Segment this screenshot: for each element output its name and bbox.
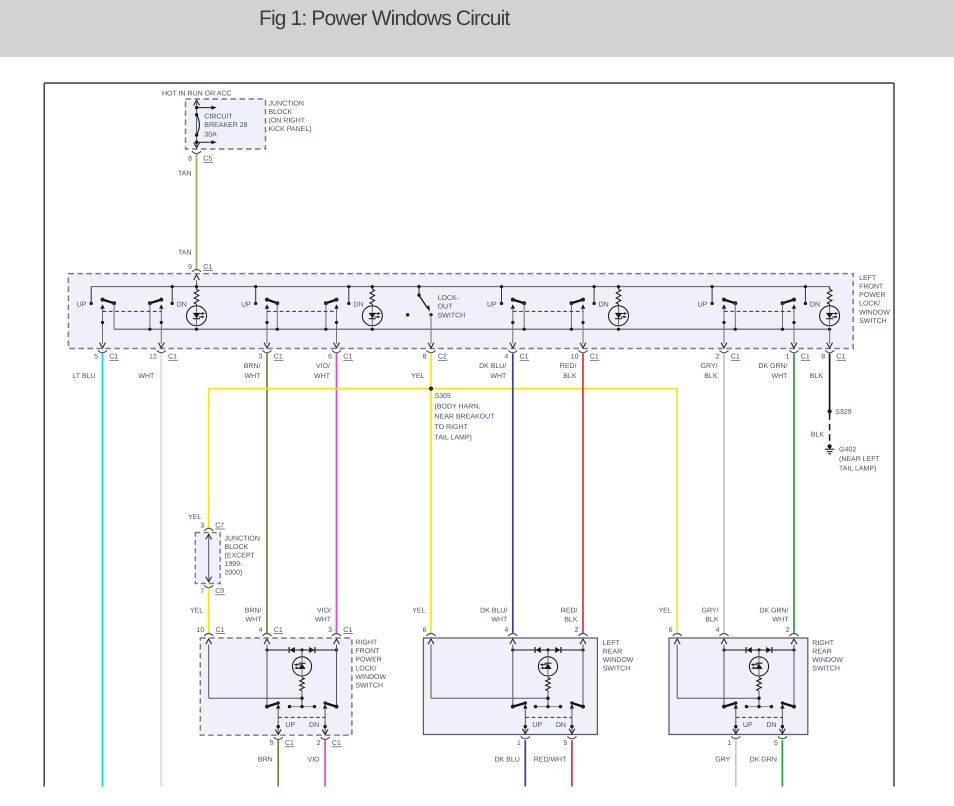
wire colour labels below master switch — [72, 362, 823, 380]
splice S329 — [828, 409, 832, 413]
left front power lock/window switch panel box — [68, 274, 853, 349]
svg-text:FRONT: FRONT — [859, 284, 884, 291]
svg-text:BLK: BLK — [810, 373, 824, 380]
svg-text:UP: UP — [77, 302, 87, 309]
svg-text:UP: UP — [743, 722, 753, 729]
svg-text:HOT IN RUN OR ACC: HOT IN RUN OR ACC — [162, 91, 232, 98]
connector C1 pin 10 master switch bottom — [571, 343, 600, 361]
svg-text:1999-: 1999- — [225, 561, 244, 568]
svg-text:BLK: BLK — [563, 373, 577, 380]
left rear switch illumination feed lead — [431, 645, 548, 699]
svg-text:C1: C1 — [274, 354, 283, 361]
svg-text:C1: C1 — [203, 264, 212, 271]
wire BRN/WHT to right front switch — [266, 354, 268, 633]
svg-text:C1: C1 — [168, 354, 177, 361]
svg-text:BLOCK: BLOCK — [225, 544, 249, 551]
wire YEL branch left to junction block — [209, 389, 431, 528]
connector C5 pin 8 — [188, 151, 213, 163]
wire DK GRN bottom lead — [781, 740, 783, 786]
wire DK BLU/WHT to left rear switch — [512, 354, 514, 633]
right rear window switch box — [669, 638, 808, 735]
left rear switch label — [603, 640, 634, 673]
svg-text:POWER: POWER — [859, 292, 885, 299]
illumination lamp resistor+LED unit 1 — [187, 285, 207, 331]
svg-text:POWER: POWER — [355, 657, 381, 664]
lock-out switch open contact dot — [406, 313, 409, 316]
left rear switch diode pair — [511, 647, 584, 653]
title banner — [0, 0, 954, 57]
svg-text:WHT: WHT — [491, 617, 508, 624]
svg-text:YEL: YEL — [412, 607, 425, 614]
right front switch illumination feed lead — [209, 645, 302, 699]
svg-text:10: 10 — [571, 354, 579, 361]
svg-text:C1: C1 — [590, 354, 599, 361]
svg-text:SWITCH: SWITCH — [438, 312, 466, 319]
svg-text:5: 5 — [774, 740, 778, 747]
wire RED/WHT bottom lead — [571, 740, 573, 786]
right front switch illumination LED and resistor — [292, 650, 311, 707]
wire YEL branch right to right rear switch — [431, 389, 677, 633]
panel label LEFT FRONT POWER LOCK/WINDOW SWITCH — [859, 275, 890, 325]
svg-text:9: 9 — [188, 264, 192, 271]
svg-text:7: 7 — [200, 588, 204, 595]
wire LT BLU — [102, 354, 104, 787]
right rear switch label — [812, 640, 843, 673]
svg-text:S329: S329 — [835, 409, 851, 416]
svg-text:DK BLU/: DK BLU/ — [479, 362, 506, 370]
svg-text:UP: UP — [487, 302, 497, 309]
svg-text:REAR: REAR — [812, 648, 831, 655]
svg-text:LOCK/: LOCK/ — [355, 664, 376, 672]
right front switch diode pair — [265, 647, 338, 653]
svg-text:LEFT: LEFT — [603, 640, 621, 647]
svg-text:YEL: YEL — [190, 607, 203, 614]
svg-text:WHT: WHT — [246, 617, 263, 624]
svg-text:DN: DN — [353, 302, 363, 309]
right rear switch bottom connectors — [727, 729, 787, 748]
svg-text:BRN/: BRN/ — [244, 362, 261, 370]
wire VIO bottom lead — [324, 740, 326, 786]
svg-text:WHT: WHT — [245, 373, 262, 380]
right front switch label — [355, 640, 386, 690]
connector C2 pin 8 master switch bottom — [423, 343, 448, 361]
svg-text:WHT: WHT — [315, 617, 332, 624]
svg-text:(ON RIGHT: (ON RIGHT — [269, 116, 306, 124]
svg-text:BREAKER 28: BREAKER 28 — [204, 122, 247, 129]
svg-text:(NEAR LEFT: (NEAR LEFT — [839, 455, 881, 463]
svg-text:(EXCEPT: (EXCEPT — [225, 551, 256, 559]
svg-text:8: 8 — [821, 354, 825, 361]
svg-text:DN: DN — [599, 302, 609, 309]
right front power lock/window switch box — [200, 638, 352, 735]
right front switch rocker switch contacts — [265, 645, 338, 735]
svg-text:1: 1 — [517, 740, 521, 747]
svg-text:JUNCTION: JUNCTION — [269, 100, 304, 107]
svg-text:YEL: YEL — [658, 607, 671, 614]
svg-text:RED/: RED/ — [560, 362, 577, 370]
right rear switch illumination LED and resistor — [749, 650, 768, 707]
svg-text:8: 8 — [423, 354, 427, 361]
svg-text:BLOCK: BLOCK — [269, 109, 293, 116]
left rear switch bottom connectors — [517, 729, 577, 748]
svg-text:BRN/: BRN/ — [245, 606, 262, 614]
svg-text:TAN: TAN — [178, 250, 191, 257]
BLK exit lead from ground bus — [829, 329, 831, 344]
right front switch top connectors — [196, 627, 352, 644]
svg-text:6: 6 — [423, 627, 427, 634]
svg-text:9: 9 — [270, 740, 274, 747]
svg-text:DN: DN — [556, 722, 566, 729]
connector C1 pin 4 master switch bottom — [504, 343, 529, 361]
svg-text:GRY/: GRY/ — [702, 606, 719, 614]
left rear window switch box — [423, 638, 597, 735]
svg-text:YEL: YEL — [411, 373, 424, 380]
svg-text:OUT: OUT — [438, 304, 454, 311]
svg-text:RIGHT: RIGHT — [355, 640, 378, 647]
wire DK GRN/WHT to right rear switch — [793, 354, 795, 633]
svg-text:6: 6 — [669, 627, 673, 634]
left rear switch top connectors — [423, 627, 588, 644]
svg-text:8: 8 — [188, 156, 192, 163]
svg-text:RIGHT: RIGHT — [812, 640, 835, 647]
svg-text:LOCK/: LOCK/ — [859, 300, 880, 308]
svg-text:4: 4 — [716, 627, 720, 634]
svg-text:SWITCH: SWITCH — [859, 318, 887, 325]
svg-text:BLK: BLK — [705, 617, 719, 624]
svg-text:3: 3 — [259, 354, 263, 361]
svg-text:5: 5 — [94, 354, 98, 361]
svg-text:LT BLU: LT BLU — [72, 373, 95, 380]
svg-text:5: 5 — [563, 740, 567, 747]
master window switch unit 4 — [698, 285, 820, 344]
svg-text:TAIL LAMP): TAIL LAMP) — [839, 465, 876, 473]
connector C1 pin 3 master switch bottom — [259, 343, 284, 361]
svg-text:RED/: RED/ — [561, 606, 578, 614]
svg-text:C1: C1 — [343, 627, 352, 634]
svg-text:C1: C1 — [109, 354, 118, 361]
wire BLK to splice S329 — [829, 354, 831, 412]
svg-text:S305: S305 — [435, 393, 451, 400]
junction block (on right kick panel) dashed box — [186, 99, 266, 149]
svg-text:WHT: WHT — [490, 373, 507, 380]
connector C1 pin 6 master switch bottom — [328, 343, 353, 361]
svg-text:UP: UP — [698, 302, 708, 309]
connector C9 pin 7 — [200, 585, 225, 595]
svg-text:DN: DN — [309, 722, 319, 729]
connector C7 pin 3 — [200, 522, 225, 530]
junction block label — [269, 100, 312, 132]
svg-text:BLK: BLK — [811, 432, 825, 439]
svg-text:SWITCH: SWITCH — [355, 682, 383, 689]
svg-text:12: 12 — [149, 354, 157, 361]
svg-text:4: 4 — [259, 627, 263, 634]
svg-text:6: 6 — [328, 354, 332, 361]
svg-text:C2: C2 — [438, 354, 447, 361]
wire BLK dashed to ground — [829, 414, 831, 445]
connector C1 pin 8 master switch bottom — [821, 343, 846, 361]
svg-text:C1: C1 — [274, 627, 283, 634]
svg-text:2000): 2000) — [225, 568, 243, 576]
svg-text:4: 4 — [504, 354, 508, 361]
svg-text:UP: UP — [285, 722, 295, 729]
wire YEL from lock-out switch — [430, 354, 432, 389]
wire DK BLU bottom lead — [524, 740, 526, 786]
svg-text:GRY: GRY — [715, 756, 730, 763]
wire BRN bottom lead — [277, 740, 279, 786]
svg-text:TAN: TAN — [178, 170, 191, 177]
left rear switch rocker switch contacts — [511, 645, 585, 735]
connector C1 pin 5 master switch bottom — [94, 343, 119, 361]
svg-text:WINDOW: WINDOW — [859, 309, 890, 316]
svg-text:YEL: YEL — [188, 514, 201, 521]
svg-text:UP: UP — [532, 722, 542, 729]
svg-text:G402: G402 — [839, 447, 856, 454]
svg-text:VIO/: VIO/ — [316, 362, 330, 370]
svg-text:BLK: BLK — [704, 373, 718, 380]
svg-text:SWITCH: SWITCH — [812, 666, 840, 673]
connector C1 pin 9 into master switch — [188, 264, 213, 272]
figure frame — [44, 83, 894, 786]
svg-text:WINDOW: WINDOW — [812, 657, 843, 664]
svg-text:BLK: BLK — [564, 617, 578, 624]
svg-text:WHT: WHT — [314, 373, 331, 380]
svg-text:JUNCTION: JUNCTION — [225, 535, 260, 542]
svg-text:DN: DN — [766, 722, 776, 729]
svg-text:RED/WHT: RED/WHT — [534, 755, 567, 763]
circuit breaker 28 30A — [194, 100, 248, 148]
label LOCK-OUT SWITCH — [438, 295, 466, 320]
svg-text:WINDOW: WINDOW — [355, 674, 386, 681]
svg-text:WINDOW: WINDOW — [603, 657, 634, 664]
svg-text:30A: 30A — [204, 131, 217, 138]
svg-text:DN: DN — [810, 302, 820, 309]
top supply bus — [91, 286, 829, 288]
svg-text:3: 3 — [200, 522, 204, 529]
svg-text:DK BLU/: DK BLU/ — [480, 606, 507, 614]
wire RED/BLK to left rear switch — [582, 354, 584, 633]
svg-text:C9: C9 — [215, 588, 224, 595]
svg-text:CIRCUIT: CIRCUIT — [204, 114, 233, 121]
svg-text:2: 2 — [716, 354, 720, 361]
svg-text:(BODY HARN,: (BODY HARN, — [435, 402, 481, 410]
connector C1 pin 2 master switch bottom — [716, 343, 741, 361]
pin 9 entry lead — [194, 275, 200, 287]
svg-text:DK GRN/: DK GRN/ — [758, 362, 787, 370]
svg-text:C1: C1 — [343, 354, 352, 361]
illumination lamp resistor+LED unit 3 — [609, 285, 629, 331]
svg-text:REAR: REAR — [603, 648, 622, 655]
svg-text:WHT: WHT — [138, 373, 155, 380]
svg-text:C1: C1 — [216, 627, 225, 634]
svg-text:BRN: BRN — [258, 756, 273, 763]
label S305 (body harn, near breakout to right tail lamp) — [435, 393, 496, 441]
svg-text:VIO: VIO — [308, 756, 321, 763]
svg-text:VIO/: VIO/ — [317, 606, 331, 614]
connector C1 pin 12 master switch bottom — [149, 343, 178, 361]
svg-text:DN: DN — [177, 302, 187, 309]
svg-text:TO RIGHT: TO RIGHT — [435, 424, 469, 431]
wire YEL down to left rear switch — [430, 389, 432, 633]
label G402 (near left tail lamp) — [839, 447, 881, 473]
right rear switch illumination feed lead — [677, 645, 759, 699]
svg-text:C1: C1 — [285, 740, 294, 747]
svg-text:4: 4 — [504, 627, 508, 634]
connector C1 pin 1 master switch bottom — [786, 343, 811, 361]
wire colour labels above lower switches — [190, 606, 789, 623]
wire WHT — [160, 354, 162, 787]
wire GRY/BLK to right rear switch — [723, 354, 725, 633]
wire VIO/WHT to right front switch — [336, 354, 338, 633]
wire GRY bottom lead — [735, 740, 737, 786]
illumination lamp resistor+LED unit 4 — [820, 287, 840, 331]
master window switch unit 1 — [77, 285, 187, 344]
svg-text:LOCK-: LOCK- — [438, 295, 460, 302]
svg-text:C5: C5 — [203, 156, 212, 163]
svg-text:DK GRN/: DK GRN/ — [759, 606, 788, 614]
svg-text:LEFT: LEFT — [859, 275, 877, 282]
right rear switch diode pair — [722, 647, 795, 653]
svg-text:SWITCH: SWITCH — [603, 666, 631, 673]
right front switch bottom connectors — [270, 729, 342, 747]
svg-text:KICK PANEL): KICK PANEL) — [269, 125, 312, 133]
svg-text:GRY/: GRY/ — [701, 362, 718, 370]
svg-text:C1: C1 — [836, 354, 845, 361]
svg-text:Fig 1: Power Windows Circuit: Fig 1: Power Windows Circuit — [259, 7, 510, 30]
svg-text:3: 3 — [328, 627, 332, 634]
splice S305 — [429, 387, 433, 391]
svg-text:2: 2 — [317, 740, 321, 747]
svg-text:DK BLU: DK BLU — [495, 756, 520, 763]
bottom ground bus — [114, 328, 830, 330]
svg-text:TAIL LAMP): TAIL LAMP) — [435, 433, 472, 441]
master window switch unit 2 — [241, 285, 363, 344]
master window switch unit 3 — [487, 285, 609, 344]
svg-text:C7: C7 — [215, 522, 224, 529]
label JUNCTION BLOCK (EXCEPT 1999-2000) — [225, 535, 260, 576]
left rear switch illumination LED and resistor — [538, 650, 557, 707]
svg-text:DK GRN: DK GRN — [750, 756, 777, 763]
svg-text:C1: C1 — [801, 354, 810, 361]
illumination lamp resistor+LED unit 2 — [362, 285, 382, 331]
svg-text:FRONT: FRONT — [355, 648, 380, 655]
svg-text:WHT: WHT — [772, 373, 789, 380]
svg-text:2: 2 — [786, 627, 790, 634]
svg-text:C1: C1 — [731, 354, 740, 361]
svg-text:1: 1 — [727, 740, 731, 747]
svg-text:10: 10 — [196, 627, 204, 634]
svg-text:1: 1 — [786, 354, 790, 361]
junction block internal lead — [206, 534, 212, 582]
svg-text:WHT: WHT — [773, 617, 790, 624]
ground G402 — [825, 444, 834, 454]
svg-text:C1: C1 — [332, 740, 341, 747]
svg-text:NEAR BREAKOUT: NEAR BREAKOUT — [435, 414, 496, 421]
wire TAN from C5 to master switch — [196, 154, 198, 271]
lock-out switch — [417, 285, 432, 344]
right rear switch top connectors — [669, 627, 799, 644]
wire YEL from C9 to right front switch — [208, 588, 210, 633]
right rear switch rocker switch contacts — [722, 645, 796, 735]
junction block (except 1999-2000) box — [195, 533, 220, 584]
svg-text:UP: UP — [241, 302, 251, 309]
svg-text:C1: C1 — [520, 354, 529, 361]
svg-text:2: 2 — [575, 627, 579, 634]
